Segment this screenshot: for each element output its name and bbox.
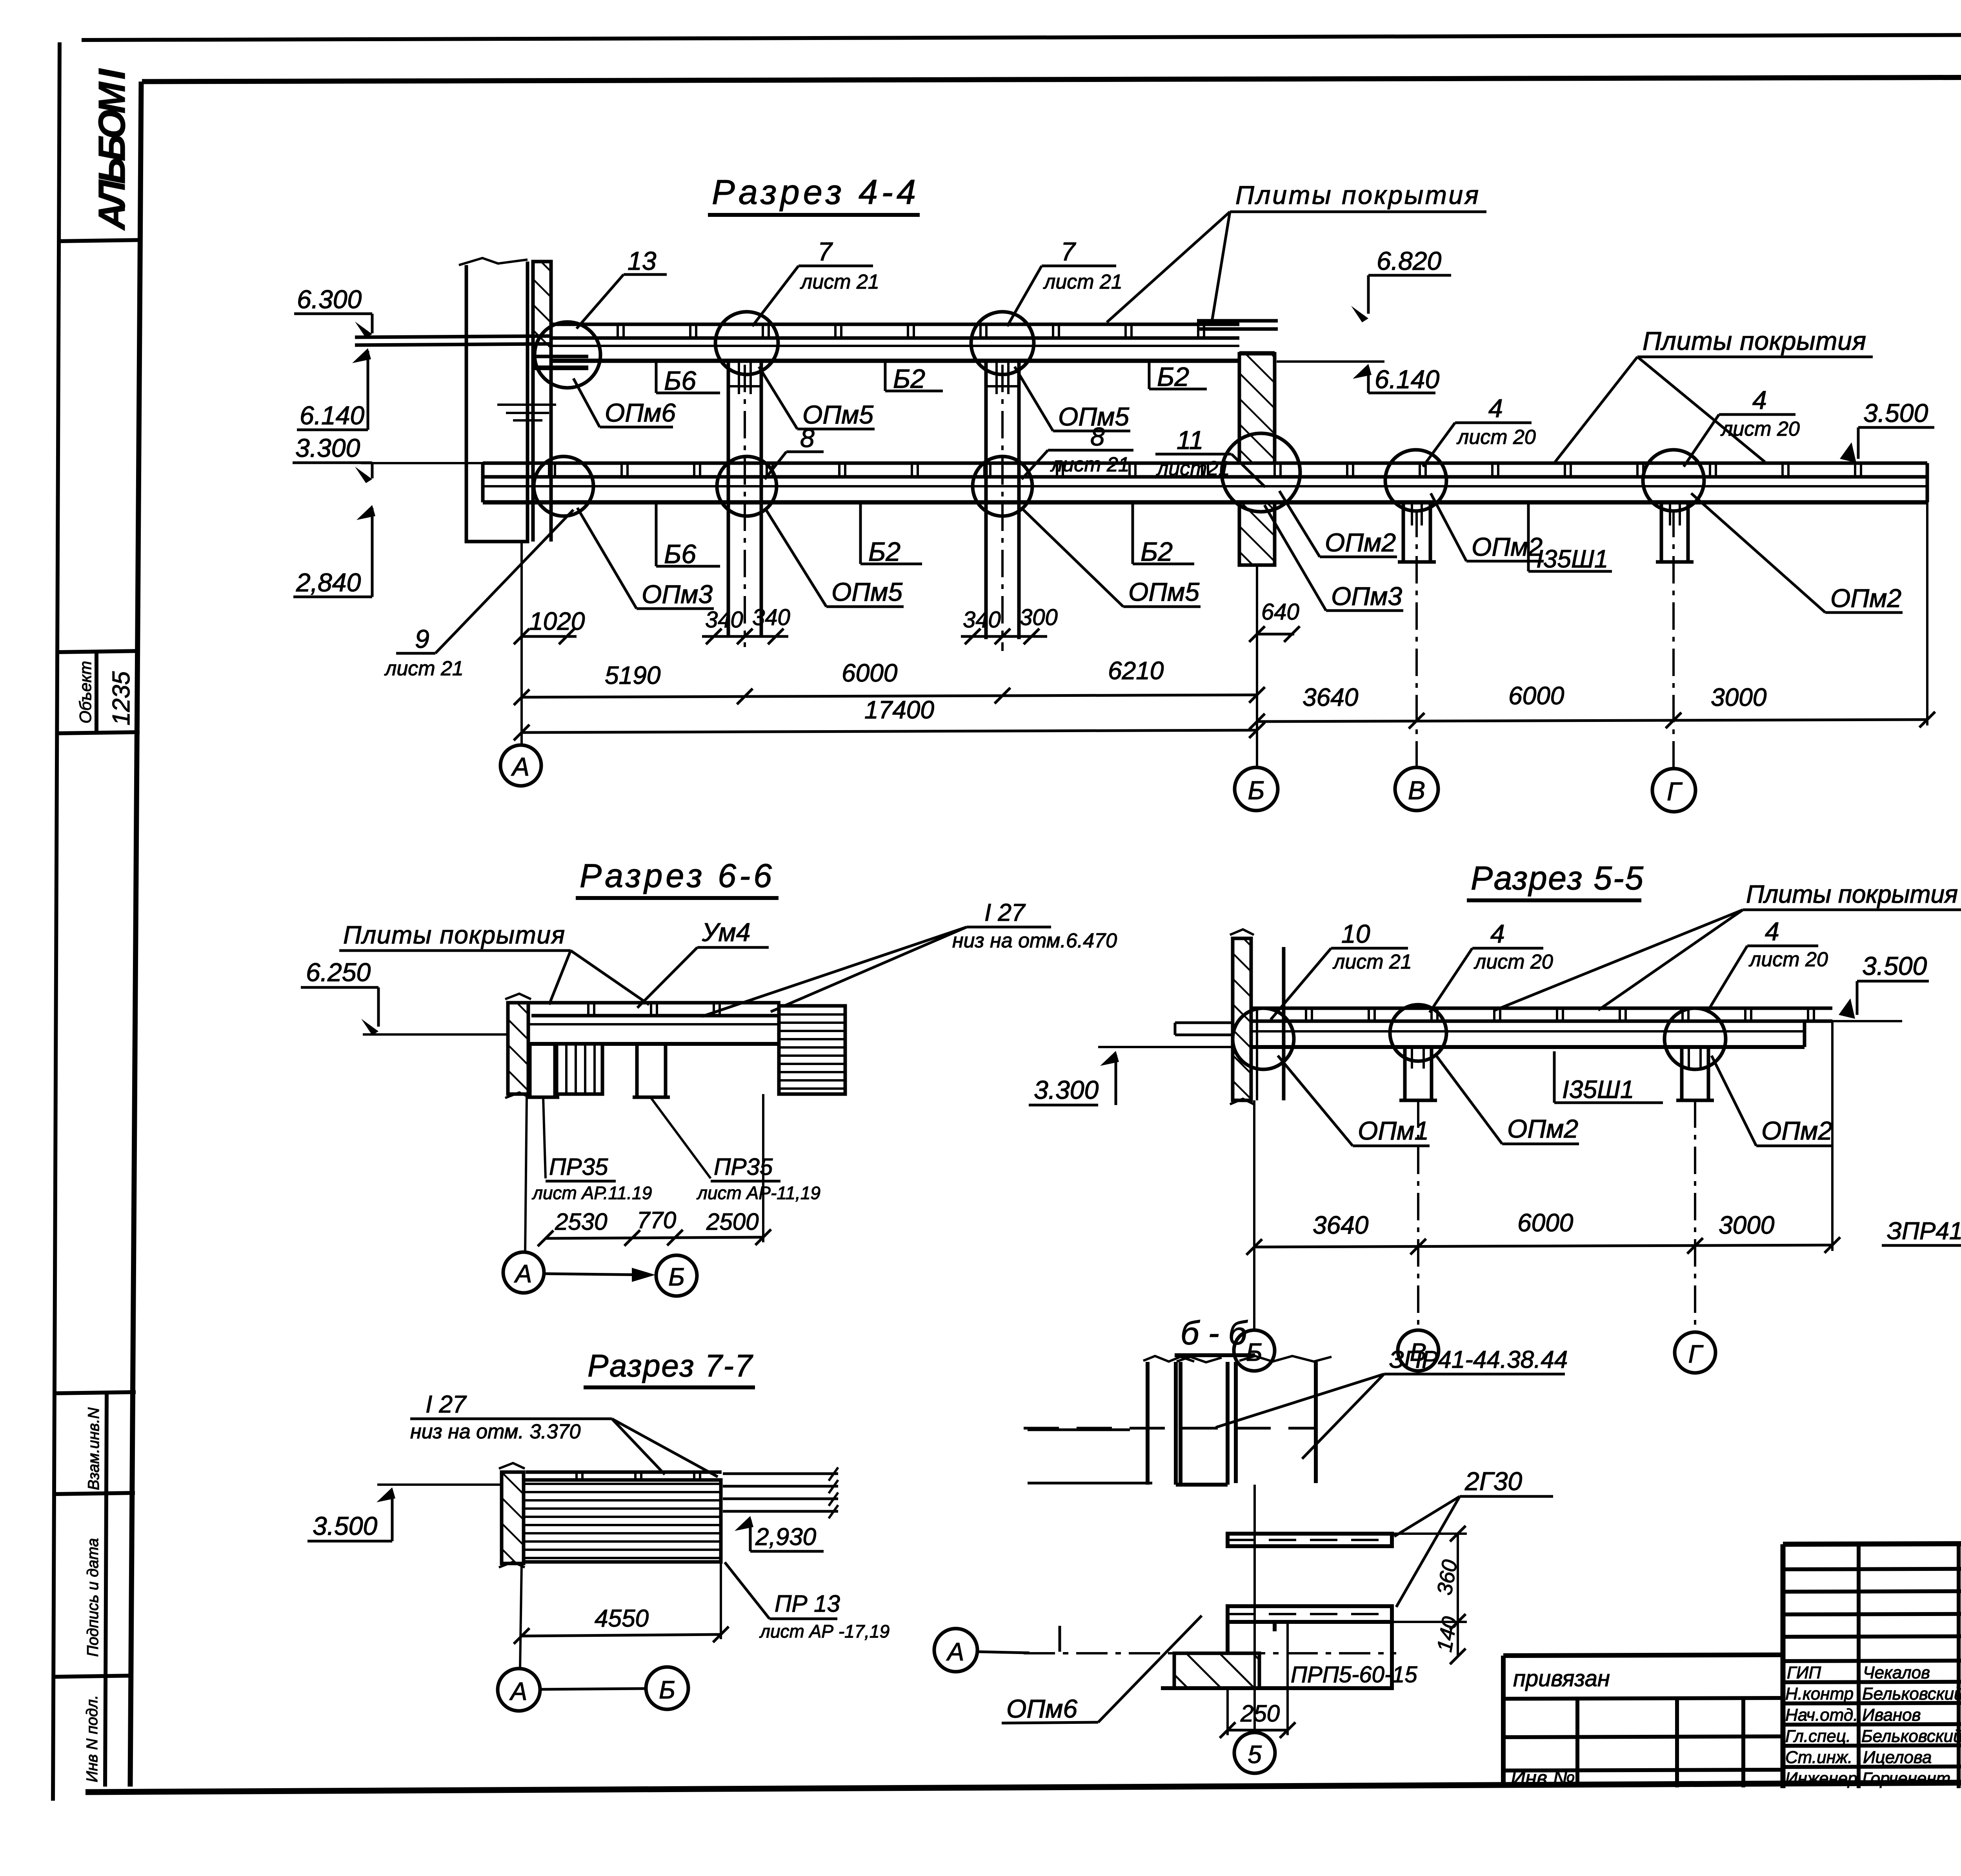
svg-text:ОПм3: ОПм3 <box>1331 582 1402 611</box>
svg-text:11: 11 <box>1177 425 1204 454</box>
joint circle at V <box>1390 1005 1446 1061</box>
svg-text:2,930: 2,930 <box>755 1523 816 1551</box>
cantilever slab bands right <box>723 1472 838 1475</box>
svg-text:лист 21: лист 21 <box>800 271 879 293</box>
svg-text:4: 4 <box>1488 394 1503 423</box>
svg-text:ЗПР41-44.38.44: ЗПР41-44.38.44 <box>1887 1218 1961 1245</box>
svg-text:Ум4: Ум4 <box>702 918 750 947</box>
svg-text:Разрез 4-4: Разрез 4-4 <box>712 173 916 211</box>
upper roof beam band <box>551 345 1239 347</box>
svg-text:5190: 5190 <box>605 661 661 689</box>
ledge stub left of wall <box>1175 1023 1233 1035</box>
svg-text:4: 4 <box>1490 919 1505 948</box>
B axis wall hatched <box>1239 354 1275 463</box>
wall hatched <box>508 1003 528 1094</box>
svg-text:Б2: Б2 <box>1157 362 1189 392</box>
axis line A <box>520 543 523 745</box>
slab stub left of wall A <box>355 336 551 337</box>
axis line B <box>1256 566 1258 767</box>
svg-text:Гл.спец.: Гл.спец. <box>1785 1727 1851 1746</box>
axis circle A <box>934 1629 977 1672</box>
plates row on top <box>526 1471 722 1474</box>
vertical-striped pier between columns <box>557 1044 602 1094</box>
margin rotated texts <box>76 68 135 1782</box>
svg-text:ОПм2: ОПм2 <box>1830 584 1901 613</box>
axis circle B <box>1234 1330 1275 1371</box>
svg-text:Разрез 6-6: Разрез 6-6 <box>580 857 772 894</box>
margin cell lines <box>60 240 141 241</box>
svg-text:лист 21: лист 21 <box>1332 951 1412 973</box>
svg-text:лист АР-11,19: лист АР-11,19 <box>696 1183 820 1203</box>
svg-text:лист 20: лист 20 <box>1456 426 1536 449</box>
outer border top <box>82 33 1961 40</box>
svg-text:Б: Б <box>659 1676 675 1704</box>
svg-text:I 27: I 27 <box>426 1391 467 1418</box>
svg-text:13: 13 <box>628 246 657 275</box>
svg-text:9: 9 <box>415 624 429 653</box>
svg-text:2500: 2500 <box>706 1209 759 1235</box>
dim 360 / 140 vertical right <box>1457 1534 1459 1656</box>
svg-text:3640: 3640 <box>1313 1211 1369 1239</box>
svg-text:АЛЬБОМ I: АЛЬБОМ I <box>91 68 133 231</box>
beam band <box>1251 1030 1805 1033</box>
svg-text:6000: 6000 <box>842 659 898 687</box>
column G <box>1660 502 1663 562</box>
seat at wall A <box>533 365 588 370</box>
layered block <box>524 1480 721 1562</box>
slab top line <box>528 1001 780 1005</box>
three plate rectangles <box>1148 1362 1176 1485</box>
column 3 <box>984 361 988 639</box>
svg-text:Б2: Б2 <box>868 537 900 567</box>
svg-text:лист 20: лист 20 <box>1473 951 1553 973</box>
svg-text:6210: 6210 <box>1108 656 1164 685</box>
svg-text:Горченент: Горченент <box>1862 1769 1950 1788</box>
svg-text:Ицелова: Ицелова <box>1863 1748 1932 1767</box>
joint circle at G <box>1664 1008 1726 1069</box>
label B2 upper 2 <box>1148 361 1151 389</box>
svg-text:Подпись и дата: Подпись и дата <box>84 1538 102 1657</box>
svg-text:4: 4 <box>1752 385 1767 414</box>
svg-text:ЗПР41-44.38.44: ЗПР41-44.38.44 <box>1389 1346 1568 1373</box>
svg-text:3.300: 3.300 <box>1034 1075 1099 1104</box>
svg-text:ОПм5: ОПм5 <box>831 577 902 606</box>
beam band <box>528 1023 780 1025</box>
svg-text:3640: 3640 <box>1302 683 1359 711</box>
axis A line <box>525 1097 527 1252</box>
svg-text:Б2: Б2 <box>1141 537 1173 567</box>
plates row <box>1251 1020 1832 1023</box>
svg-text:лист 21: лист 21 <box>384 657 464 680</box>
svg-text:I 27: I 27 <box>984 899 1026 926</box>
svg-text:Взам.инв.N: Взам.инв.N <box>85 1407 102 1490</box>
svg-text:А: А <box>509 1677 528 1705</box>
svg-text:7: 7 <box>1061 237 1076 266</box>
svg-text:250: 250 <box>1240 1700 1280 1727</box>
wall hatched <box>1233 938 1251 1100</box>
svg-text:А: А <box>514 1260 532 1288</box>
top band second line / inner frame top <box>142 76 1961 82</box>
dashed line through plates <box>1024 1427 1318 1430</box>
svg-text:лист АР -17,19: лист АР -17,19 <box>759 1621 890 1641</box>
svg-text:ПР 13: ПР 13 <box>775 1591 840 1617</box>
svg-text:ОПм2: ОПм2 <box>1507 1114 1578 1143</box>
svg-text:300: 300 <box>1020 605 1058 630</box>
lower bar <box>1228 1606 1392 1622</box>
joint circle at B <box>1222 433 1300 512</box>
svg-text:Плиты покрытия: Плиты покрытия <box>1643 326 1866 355</box>
svg-text:2,840: 2,840 <box>296 568 361 597</box>
svg-text:17400: 17400 <box>864 696 934 724</box>
svg-text:6.820: 6.820 <box>1377 246 1441 275</box>
axis A line <box>520 1563 522 1669</box>
svg-text:низ на отм. 3.370: низ на отм. 3.370 <box>410 1420 581 1443</box>
label I35Sh1 <box>1527 502 1530 571</box>
svg-text:4550: 4550 <box>595 1605 649 1632</box>
svg-text:Б: Б <box>1248 776 1265 805</box>
svg-text:Инв.№: Инв.№ <box>1511 1767 1575 1790</box>
svg-text:2530: 2530 <box>555 1209 607 1235</box>
axis circle B with arrow <box>646 1667 688 1709</box>
vertical tick <box>1059 1626 1061 1652</box>
joint circle lower 1 <box>534 456 593 516</box>
svg-text:I35Ш1: I35Ш1 <box>1536 545 1608 573</box>
svg-text:лист АР.11.19: лист АР.11.19 <box>531 1183 652 1203</box>
signature rows text <box>1785 1663 1961 1788</box>
svg-text:ОПм2: ОПм2 <box>1472 532 1543 561</box>
inner frame left <box>130 82 141 1787</box>
svg-text:340: 340 <box>963 607 1001 633</box>
svg-text:6000: 6000 <box>1517 1209 1574 1237</box>
wall column A rect <box>466 262 528 542</box>
svg-text:6.250: 6.250 <box>306 958 371 987</box>
upper bar 2G30 <box>1228 1534 1392 1546</box>
svg-text:6000: 6000 <box>1508 682 1564 710</box>
plates row <box>531 1014 779 1018</box>
svg-text:Б6: Б6 <box>664 539 696 569</box>
svg-text:2Г30: 2Г30 <box>1464 1467 1522 1496</box>
wire <box>977 1652 1030 1653</box>
joint circle at wall <box>1233 1008 1294 1069</box>
svg-text:Объект: Объект <box>76 661 95 723</box>
svg-text:ОПм3: ОПм3 <box>642 580 713 609</box>
axis circle B <box>1235 767 1278 811</box>
svg-text:1235: 1235 <box>108 671 135 725</box>
svg-text:ОПм5: ОПм5 <box>1128 577 1199 606</box>
axis circle 5 <box>1234 1732 1275 1773</box>
axis circle A <box>500 745 541 786</box>
svg-text:Б: Б <box>668 1263 685 1291</box>
svg-text:ГИП: ГИП <box>1787 1663 1821 1682</box>
svg-text:Инв N подл.: Инв N подл. <box>84 1695 101 1782</box>
svg-text:3.500: 3.500 <box>1863 398 1928 427</box>
label B2 lower 1 <box>859 502 862 564</box>
beam flange lines left <box>1028 1429 1130 1431</box>
svg-text:Нач.отд.: Нач.отд. <box>1785 1705 1858 1725</box>
level 6.140 right <box>1277 360 1384 363</box>
svg-text:ПРП5-60-15: ПРП5-60-15 <box>1291 1662 1417 1687</box>
upper roof: top slab line <box>551 323 1239 326</box>
middle signature table verticals <box>1857 1544 1861 1788</box>
svg-text:7: 7 <box>818 237 833 266</box>
lower roof top slab line <box>483 462 1927 465</box>
water level symbol <box>497 405 556 420</box>
joint circle upper 3 <box>971 312 1034 374</box>
axis circle B with arrow <box>656 1255 697 1296</box>
wall hatched <box>502 1472 524 1563</box>
svg-text:лист 20: лист 20 <box>1748 948 1828 971</box>
lower roof plates row <box>483 475 1927 479</box>
slab top line <box>1251 1007 1832 1010</box>
column 1 <box>528 1044 532 1097</box>
svg-text:б - б: б - б <box>1181 1314 1248 1351</box>
vertical line through to circle 5 <box>1253 1485 1256 1730</box>
svg-text:340: 340 <box>705 607 743 633</box>
svg-text:ОПм2: ОПм2 <box>1761 1116 1832 1145</box>
svg-text:6.140: 6.140 <box>300 401 364 430</box>
outer top edge <box>1783 1542 1961 1544</box>
hatched pier left <box>1174 1653 1259 1688</box>
b-b axis circle A with line <box>934 1626 1060 1672</box>
upper roof plates row <box>551 336 1239 340</box>
svg-text:лист 21: лист 21 <box>1050 453 1130 476</box>
column V <box>1402 502 1405 562</box>
axis circle V <box>1398 1330 1439 1371</box>
joint circle at V <box>1385 450 1446 511</box>
svg-text:А: А <box>946 1638 964 1666</box>
column 2 <box>635 1044 639 1097</box>
svg-text:ОПм2: ОПм2 <box>1325 528 1396 557</box>
axis lines <box>1253 1100 1255 1330</box>
label B2 lower 2 <box>1131 502 1134 564</box>
svg-text:привязан: привязан <box>1513 1666 1610 1691</box>
svg-text:ОПм6: ОПм6 <box>605 398 676 427</box>
svg-text:1020: 1020 <box>529 607 585 635</box>
label B6 upper <box>655 361 658 393</box>
svg-text:3000: 3000 <box>1719 1211 1775 1239</box>
column G <box>1680 1047 1684 1100</box>
lower roof beam band <box>483 485 1927 487</box>
axis circle G <box>1675 1332 1715 1373</box>
svg-text:Б2: Б2 <box>893 364 925 394</box>
joint circle at G <box>1643 450 1704 511</box>
column V <box>1403 1047 1407 1100</box>
leader diagonal from OPm6 <box>1098 1616 1202 1722</box>
label I35Sh1 <box>1553 1051 1556 1103</box>
svg-text:Г: Г <box>1667 777 1683 806</box>
svg-text:3.500: 3.500 <box>313 1511 377 1540</box>
label PR35 list AR-11,19 (2) <box>651 1098 711 1178</box>
outer border left <box>53 42 60 1801</box>
svg-text:3000: 3000 <box>1711 683 1767 711</box>
svg-text:6.300: 6.300 <box>297 285 362 314</box>
svg-text:ПР35: ПР35 <box>549 1154 608 1180</box>
joint circle upper 1 <box>535 322 600 388</box>
axis circle A <box>498 1669 540 1711</box>
svg-text:Б6: Б6 <box>664 366 696 396</box>
axis circle A <box>503 1252 544 1293</box>
column 2 <box>727 361 730 635</box>
joint circle lower 3 <box>973 456 1032 516</box>
svg-text:Чекалов: Чекалов <box>1863 1663 1930 1682</box>
svg-text:Иванов: Иванов <box>1862 1705 1921 1725</box>
bottom frame <box>85 1780 1961 1792</box>
axis circle G <box>1652 769 1695 812</box>
privyazan block left <box>1503 1655 1783 1656</box>
svg-text:Плиты покрытия: Плиты покрытия <box>1746 880 1958 908</box>
Um4 block (horizontal layers) <box>779 1006 845 1094</box>
centerline dash-dot <box>1024 1652 1396 1654</box>
svg-text:640: 640 <box>1261 599 1299 625</box>
wall A hatched strip <box>533 262 551 356</box>
svg-text:8: 8 <box>1090 422 1105 451</box>
svg-text:Разрез 7-7: Разрез 7-7 <box>588 1348 753 1383</box>
axis circle V <box>1395 767 1438 811</box>
svg-text:Б: Б <box>1246 1338 1262 1366</box>
svg-text:5: 5 <box>1248 1740 1262 1769</box>
label B6 lower <box>655 502 658 566</box>
parapet cap at B wall <box>1197 319 1278 323</box>
svg-text:8: 8 <box>800 424 815 453</box>
svg-text:I35Ш1: I35Ш1 <box>1562 1075 1634 1103</box>
svg-text:3.300: 3.300 <box>295 433 360 462</box>
svg-text:низ на отм.6.470: низ на отм.6.470 <box>952 929 1117 952</box>
joint circle upper 2 <box>715 312 778 374</box>
label B2 upper 1 <box>884 361 887 391</box>
svg-text:Г: Г <box>1688 1340 1704 1368</box>
svg-text:6.140: 6.140 <box>1375 365 1439 394</box>
joint circle lower 2 <box>717 456 777 516</box>
svg-text:лист 21: лист 21 <box>1043 271 1122 293</box>
svg-text:ОПм6: ОПм6 <box>1006 1694 1077 1723</box>
svg-text:В: В <box>1408 776 1425 805</box>
svg-text:4: 4 <box>1765 917 1779 946</box>
svg-text:340: 340 <box>752 605 790 630</box>
middle table horizontals <box>1783 1569 1961 1569</box>
svg-text:10: 10 <box>1341 919 1370 948</box>
svg-text:Ст.инж.: Ст.инж. <box>1785 1748 1852 1767</box>
svg-text:Бельковский: Бельковский <box>1861 1727 1961 1746</box>
svg-text:Н.контр: Н.контр <box>1785 1684 1854 1703</box>
svg-text:Разрез 5-5: Разрез 5-5 <box>1471 860 1643 896</box>
svg-text:3.500: 3.500 <box>1862 951 1927 980</box>
label PR35 list AR.11.19 (1) <box>543 1098 546 1178</box>
svg-text:Бельковский: Бельковский <box>1862 1684 1961 1703</box>
svg-text:лист21: лист21 <box>1156 457 1230 480</box>
svg-text:А: А <box>511 752 529 781</box>
svg-text:лист 20: лист 20 <box>1720 418 1800 440</box>
svg-text:770: 770 <box>637 1207 676 1233</box>
lower block PRP5-60-15 <box>1228 1622 1392 1688</box>
svg-text:Инженер: Инженер <box>1785 1769 1857 1788</box>
